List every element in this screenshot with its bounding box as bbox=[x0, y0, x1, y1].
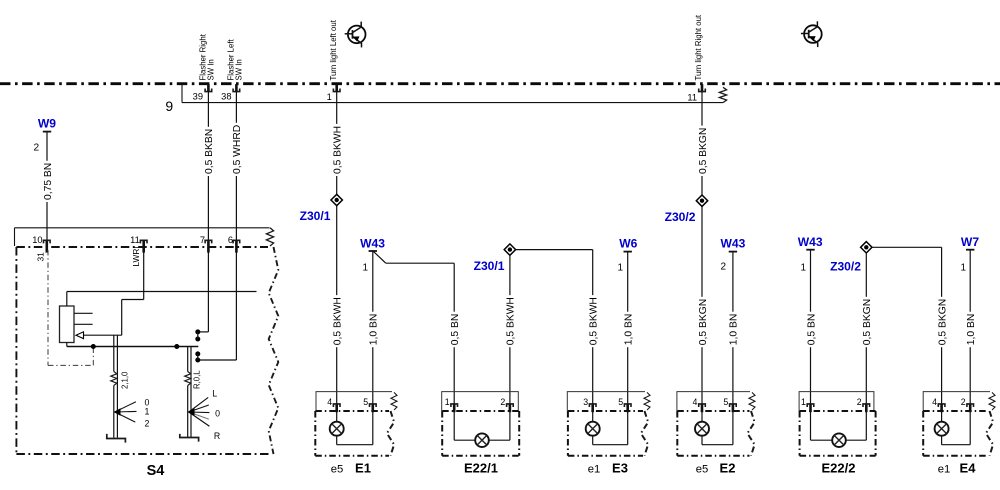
svg-text:0,5 BKWH: 0,5 BKWH bbox=[588, 297, 599, 345]
pin 2 of E22/1 bbox=[507, 404, 514, 407]
svg-text:2: 2 bbox=[500, 397, 505, 407]
junction dot B bbox=[174, 344, 179, 349]
wire W6 to E3 pin 5, 1,0 BN bbox=[627, 252, 629, 404]
svg-text:1: 1 bbox=[445, 397, 450, 407]
svg-text:1: 1 bbox=[145, 407, 150, 417]
svg-text:5: 5 bbox=[618, 397, 623, 407]
wire Z30/1 to E3 pin 3, 0,5 BKWH bbox=[516, 249, 593, 251]
wire W9 to S4 pin 10, 0.75 BN bbox=[46, 132, 48, 241]
relay contact line upper bbox=[74, 312, 93, 314]
svg-text:SW In: SW In bbox=[235, 59, 244, 80]
wire S4 pin 11 to relay arrow bbox=[143, 252, 145, 300]
connector sleeve Z30/2 second bbox=[861, 242, 872, 253]
pin 5 of E1 bbox=[370, 404, 377, 407]
junction dot A bbox=[91, 344, 96, 349]
svg-text:L: L bbox=[212, 388, 217, 398]
svg-text:Z30/1: Z30/1 bbox=[474, 259, 505, 273]
S4 connector line with pins bbox=[14, 228, 16, 246]
svg-text:5: 5 bbox=[363, 397, 368, 407]
pin 1 of E22/2 bbox=[807, 404, 814, 407]
wire flasher left 0,5 WHRD bbox=[235, 92, 237, 241]
pin 5 of E3 bbox=[624, 404, 631, 407]
left stem zigzag break bbox=[111, 372, 117, 386]
svg-text:2: 2 bbox=[145, 418, 150, 428]
pin 4 of E4 bbox=[938, 404, 945, 407]
connector line 9 with drop from bus and pin numbers bbox=[181, 85, 183, 103]
connector housing for E3 bbox=[567, 392, 645, 411]
svg-text:Turn light Right out: Turn light Right out bbox=[694, 14, 703, 80]
svg-text:2,1,0: 2,1,0 bbox=[120, 371, 129, 389]
label 0,5 BKWH lower E1 pin4 bbox=[331, 295, 342, 347]
right switch stem double line bbox=[187, 347, 189, 372]
svg-text:2: 2 bbox=[34, 143, 40, 154]
svg-text:SW In: SW In bbox=[207, 59, 216, 80]
relay coil rectangle in S4 bbox=[60, 306, 75, 343]
svg-text:0,5 BKWH: 0,5 BKWH bbox=[506, 297, 517, 345]
svg-text:W43: W43 bbox=[360, 236, 385, 250]
svg-text:9: 9 bbox=[165, 98, 173, 114]
svg-text:0,5 BKGN: 0,5 BKGN bbox=[862, 299, 873, 345]
svg-text:0,5 BKGN: 0,5 BKGN bbox=[698, 128, 709, 174]
svg-text:4: 4 bbox=[932, 397, 937, 407]
lamp E22/2 bbox=[810, 412, 812, 440]
svg-text:W9: W9 bbox=[38, 117, 56, 131]
wire relay bottom to switch common bbox=[66, 343, 68, 347]
wire W7 to E4 pin 2, 1,0 BN bbox=[969, 250, 971, 404]
svg-text:0,5 BKGN: 0,5 BKGN bbox=[698, 299, 709, 345]
svg-text:7: 7 bbox=[200, 235, 205, 245]
svg-text:3: 3 bbox=[583, 397, 588, 407]
lamp E1 bbox=[336, 412, 338, 422]
left switch base plate bbox=[107, 434, 126, 443]
pin 2 of E4 bbox=[967, 404, 974, 407]
svg-text:1: 1 bbox=[327, 92, 332, 102]
svg-text:E2: E2 bbox=[720, 460, 736, 475]
svg-text:e5: e5 bbox=[696, 463, 709, 475]
wire Z30/2 to E22/2 pin 2, 0,5 BKGN bbox=[865, 253, 867, 404]
right switch base plate bbox=[180, 434, 199, 442]
svg-text:0,5 BN: 0,5 BN bbox=[806, 314, 817, 345]
svg-text:E22/2: E22/2 bbox=[822, 460, 856, 475]
wire Z30/1 to E22/1 pin 2, 0,5 BKWH bbox=[509, 255, 511, 404]
svg-text:6: 6 bbox=[228, 235, 233, 245]
svg-text:2: 2 bbox=[961, 397, 966, 407]
pin 39 bracket at bus (Flasher Right SW In) bbox=[205, 89, 212, 92]
mechanical arrow into relay bbox=[76, 332, 84, 339]
svg-text:0,75 BN: 0,75 BN bbox=[43, 163, 54, 200]
lamp E2 bbox=[701, 412, 703, 422]
svg-text:LWRI: LWRI bbox=[131, 246, 141, 266]
lamp E22/1 bbox=[453, 412, 455, 440]
pin 11 bracket at bus (Turn light Right out) bbox=[699, 89, 706, 92]
pin 3 of E3 bbox=[589, 404, 596, 407]
svg-text:31: 31 bbox=[35, 252, 45, 262]
svg-text:1: 1 bbox=[362, 262, 368, 273]
svg-text:W6: W6 bbox=[619, 236, 637, 250]
svg-text:11: 11 bbox=[130, 235, 140, 245]
pin 2 of E22/2 bbox=[863, 404, 870, 407]
svg-text:4: 4 bbox=[327, 397, 332, 407]
lamp E3 bbox=[592, 412, 594, 422]
svg-text:1: 1 bbox=[617, 262, 623, 273]
right switch wiper fan bbox=[189, 397, 208, 412]
svg-text:1: 1 bbox=[801, 397, 806, 407]
relay contact line lower bbox=[74, 323, 93, 325]
svg-text:4: 4 bbox=[692, 397, 697, 407]
svg-text:Z30/1: Z30/1 bbox=[300, 209, 331, 223]
svg-text:5: 5 bbox=[723, 397, 728, 407]
bus: dash-dot component boundary line across top bbox=[0, 82, 1000, 85]
svg-text:1: 1 bbox=[960, 262, 966, 273]
svg-text:Z30/2: Z30/2 bbox=[830, 260, 861, 274]
svg-text:1,0 BN: 1,0 BN bbox=[966, 314, 977, 345]
svg-text:0,5 WHRD: 0,5 WHRD bbox=[232, 125, 243, 174]
S4 pin 10 bracket bbox=[44, 240, 51, 243]
component dash-dot box E1 bbox=[315, 410, 389, 412]
svg-text:e1: e1 bbox=[588, 463, 601, 475]
wire flasher right 0,5 BKBN bbox=[207, 92, 209, 241]
label 0,75 BN bbox=[42, 161, 53, 202]
svg-text:W43: W43 bbox=[798, 235, 823, 249]
lamp E4 bbox=[941, 412, 943, 422]
svg-text:R: R bbox=[214, 431, 220, 441]
svg-text:38: 38 bbox=[221, 92, 231, 102]
pin 4 of E1 bbox=[333, 404, 340, 407]
svg-text:W43: W43 bbox=[720, 236, 745, 250]
wire W43 to E22/2 pin 1, 0,5 BN bbox=[810, 250, 812, 404]
svg-text:1,0 BN: 1,0 BN bbox=[369, 314, 380, 345]
svg-text:E4: E4 bbox=[960, 460, 977, 475]
pin 1 of E22/1 bbox=[451, 404, 458, 407]
svg-text:10: 10 bbox=[32, 235, 42, 245]
contact dots pair upper bbox=[195, 329, 200, 334]
connector housing for E22/1 bbox=[442, 392, 519, 411]
svg-text:39: 39 bbox=[193, 92, 203, 102]
svg-text:S4: S4 bbox=[147, 463, 165, 479]
wire W43 to E1 pin 5, 1,0 BN bbox=[372, 251, 374, 404]
connector housing for E1 bbox=[316, 392, 392, 411]
squiggle end of connector line 9 bbox=[719, 87, 726, 102]
connector sleeve Z30/2 on wire bbox=[696, 195, 707, 206]
svg-text:2: 2 bbox=[720, 262, 726, 273]
right stem zigzag break bbox=[185, 372, 191, 386]
wire turn light left out 0,5 BKWH upper bbox=[336, 92, 338, 404]
component dash-dot box E22/1 bbox=[442, 410, 519, 412]
left switch wiper fan bbox=[115, 402, 136, 412]
pin 4 of E2 bbox=[699, 404, 706, 407]
wire turn light right out 0,5 BKGN upper bbox=[701, 92, 703, 404]
svg-text:E22/1: E22/1 bbox=[464, 460, 498, 475]
squiggle end of S4 connector line bbox=[266, 228, 273, 246]
S4 combination switch dash-dot box bbox=[16, 246, 268, 248]
pin 5 of E2 bbox=[730, 404, 737, 407]
contact dots pair lower bbox=[195, 351, 200, 356]
S4 torn right edge bbox=[269, 247, 279, 454]
connector housing for E2 bbox=[677, 392, 750, 411]
connector sleeve Z30/1 second bbox=[504, 244, 515, 255]
inner dashed box in S4 bbox=[47, 250, 49, 365]
wire W43 to E2 pin 5, 1,0 BN bbox=[732, 252, 734, 404]
svg-text:Turn light Left out: Turn light Left out bbox=[329, 19, 338, 80]
wire S4 pin 6 to contact column bbox=[235, 252, 237, 360]
svg-text:E1: E1 bbox=[355, 460, 371, 475]
S4 pin 6 bracket bbox=[233, 240, 240, 243]
left switch stem double line bbox=[113, 335, 115, 371]
svg-text:2: 2 bbox=[857, 397, 862, 407]
svg-text:11: 11 bbox=[687, 93, 697, 103]
svg-text:e1: e1 bbox=[938, 463, 951, 475]
component dash-dot box E4 bbox=[923, 410, 988, 412]
svg-text:0: 0 bbox=[215, 408, 220, 418]
svg-text:0,5 BKGN: 0,5 BKGN bbox=[937, 299, 948, 345]
svg-text:0,5 BKWH: 0,5 BKWH bbox=[332, 126, 343, 174]
wire S4 pin 7 to contact column bbox=[207, 252, 209, 332]
pin 1 bracket at bus (Turn light Left out) bbox=[333, 89, 340, 92]
svg-text:1,0 BN: 1,0 BN bbox=[729, 314, 740, 345]
label 0,5 BKGN lower E2 pin4 bbox=[697, 297, 708, 347]
svg-text:0,5 BKBN: 0,5 BKBN bbox=[204, 129, 215, 174]
connector sleeve Z30/1 on wire bbox=[331, 194, 342, 205]
svg-text:1: 1 bbox=[800, 262, 806, 273]
svg-text:R,0,L: R,0,L bbox=[192, 370, 201, 389]
component dash-dot box E22/2 bbox=[800, 410, 876, 412]
svg-text:Z30/2: Z30/2 bbox=[665, 210, 696, 224]
svg-text:1,0 BN: 1,0 BN bbox=[623, 314, 634, 345]
indicator icon (transistor symbol) left bbox=[348, 26, 366, 44]
svg-text:0,5 BKWH: 0,5 BKWH bbox=[332, 297, 343, 345]
svg-text:e5: e5 bbox=[331, 463, 344, 475]
connector housing for E4 bbox=[923, 392, 990, 411]
indicator icon (transistor symbol) right bbox=[804, 25, 822, 43]
wire Z30/2 to E4 pin 4, 0,5 BKGN bbox=[872, 246, 942, 248]
S4 pin 11 bracket bbox=[140, 240, 147, 243]
svg-text:W7: W7 bbox=[961, 235, 979, 249]
pin 38 bracket at bus (Flasher Left SW In) bbox=[233, 89, 240, 92]
wire from relay top bbox=[66, 292, 68, 307]
svg-text:0,5 BN: 0,5 BN bbox=[450, 314, 461, 345]
S4 pin 7 bracket bbox=[205, 240, 212, 243]
wire W43 diagonal to E22/1 pin 1, 0,5 BN bbox=[374, 252, 386, 264]
svg-text:E3: E3 bbox=[612, 460, 628, 475]
component dash-dot box E2 bbox=[677, 410, 749, 412]
component dash-dot box E3 bbox=[568, 410, 643, 412]
connector housing for E22/2 bbox=[799, 392, 874, 411]
